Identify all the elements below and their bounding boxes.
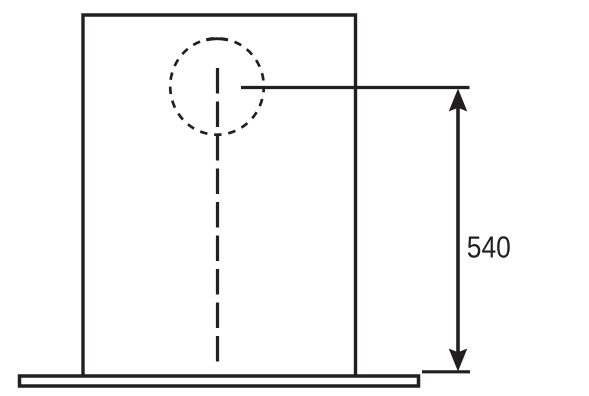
vertical centerline (dashed): [216, 68, 219, 369]
base plate: [20, 376, 419, 386]
hole (dashed circle): [170, 38, 264, 134]
dimension line shaft: [456, 94, 460, 366]
column body outline (open rectangle): [83, 15, 356, 376]
svg-text:540: 540: [467, 230, 511, 265]
hole top long dash: [206, 39, 228, 40]
bottom extension line: [422, 370, 470, 373]
arrowhead bottom: [449, 349, 468, 372]
arrowhead top: [449, 89, 468, 112]
leader line from hole centre (top extension line): [241, 86, 470, 89]
